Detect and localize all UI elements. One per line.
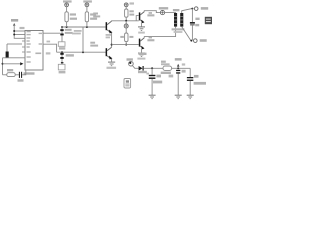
IC internal pin-name smudges [27,31,43,63]
resistor R1 [66,7,68,12]
TR3 label [149,12,152,14]
power flag above R3 [130,2,135,4]
wire to resistor R6 [3,74,7,76]
capacitor C3 [151,68,153,75]
transistor TR1 [106,22,108,30]
note box dark [205,17,212,24]
jack top label [139,53,147,55]
power flag below junction [125,21,127,24]
IC pin stubs left [22,41,25,52]
junction dot [82,51,84,53]
TR1 label [93,13,98,15]
transistor TR2 [106,48,108,56]
junction dot [191,8,193,10]
label left of vertical [106,34,111,36]
junction dot [66,26,68,28]
left vertical wire [2,58,4,75]
junction dot [125,20,127,22]
inductor L1 box [163,66,172,70]
wire to IC pin 2 [14,34,25,36]
wire IC pin to crystal column [7,43,22,45]
junction dot [86,26,88,28]
TR1 emitter vertical [111,33,113,47]
IC ref label above [20,27,25,29]
IC U1 body [25,31,43,71]
gnd box under C2 [58,42,65,47]
junction dot [151,67,153,69]
base stub from wire [136,16,139,21]
TR2 label [90,42,95,44]
jack label [127,58,133,60]
TR1 collector wire y20.8 [112,20,139,22]
resistor R2 [86,7,88,12]
junction dot [2,63,4,65]
label above wire [47,41,51,43]
TR3 collector wire to power flag [144,11,160,13]
junction dot [125,44,127,46]
junction dot [13,34,15,36]
TR2 emitter lead [111,59,113,62]
vertical rail-to-base wire [82,27,84,52]
transformer T1 primary winding [174,13,177,27]
power flag above R1 [63,0,72,2]
power flag VCC top-left [11,19,25,38]
R6 label [7,69,13,71]
TR4 collector wire to transformer primary bottom [144,27,175,38]
wire into IC pin with arrowhead [3,63,21,65]
power flag mid [160,11,164,15]
junction dot [190,40,192,42]
TR4 label [149,37,152,39]
ground TR2 [108,62,115,66]
base wire y52.2 [57,51,106,53]
ground C5 [187,95,194,99]
wire y57.8 to IC [3,57,26,59]
capacitor C6 across output [191,9,193,22]
rail wire y27 [62,26,106,28]
connector CO1 [194,7,198,11]
IC name below [24,72,35,74]
wire y44.6 to TR4 base [112,44,139,46]
C4 value smudge [66,54,74,56]
VCC flag bottom [175,58,182,61]
corner wire down right [189,68,191,77]
wire IC pin to base wire (L) [43,44,57,52]
secondary top lead to CO1 [182,9,192,13]
capacitor C5 [187,77,193,78]
transformer T1 secondary winding [180,13,183,27]
wire diode to L1 [144,67,163,69]
capacitor C8 (under VCC flag) [176,70,180,71]
wire L1 to corner [172,67,191,69]
TR3 emitter lead [141,23,143,27]
diode label below [138,71,147,73]
transformer note below [172,28,185,30]
resistor R3 [125,7,127,9]
secondary bottom lead to CO2 [182,27,191,41]
power flag above R2 [83,0,92,2]
transformer T1 label [173,9,180,11]
junction dot [13,30,15,32]
junction dot [111,44,113,46]
ground TR4 [138,53,145,57]
crystal X1 black body [6,52,9,58]
C7 label [18,79,24,81]
wire flag to transformer primary [165,12,176,14]
DC jack J1 [129,61,134,66]
capacitor C2 vertical [61,27,63,42]
capacitor C4 vertical [61,52,63,64]
transistor TR4 [139,39,141,47]
connector CO2 [194,39,198,43]
battery box [124,79,131,89]
wire IC right pin to C2 [43,32,60,34]
wire R6 to C7 [15,74,19,76]
wire jack to diode [132,65,138,68]
gnd box under C4 [58,64,65,70]
C2 value smudges [65,29,72,31]
TR4 emitter lead [141,49,143,53]
ground C3 [149,95,156,99]
junction dot [177,67,179,69]
wire C7 to IC bottom pin [22,70,26,75]
resistor R6 [7,73,15,77]
junction dot [61,26,63,28]
ground C8 [175,95,182,99]
resistor R4 [125,28,127,33]
ground TR3 [138,27,145,31]
diode D1 [139,66,143,71]
wire to IC pin 1 [14,30,25,32]
wire down to crystal [6,44,8,52]
capacitor C7 [19,72,20,78]
junction dot [61,51,63,53]
transistor TR3 [139,12,141,20]
